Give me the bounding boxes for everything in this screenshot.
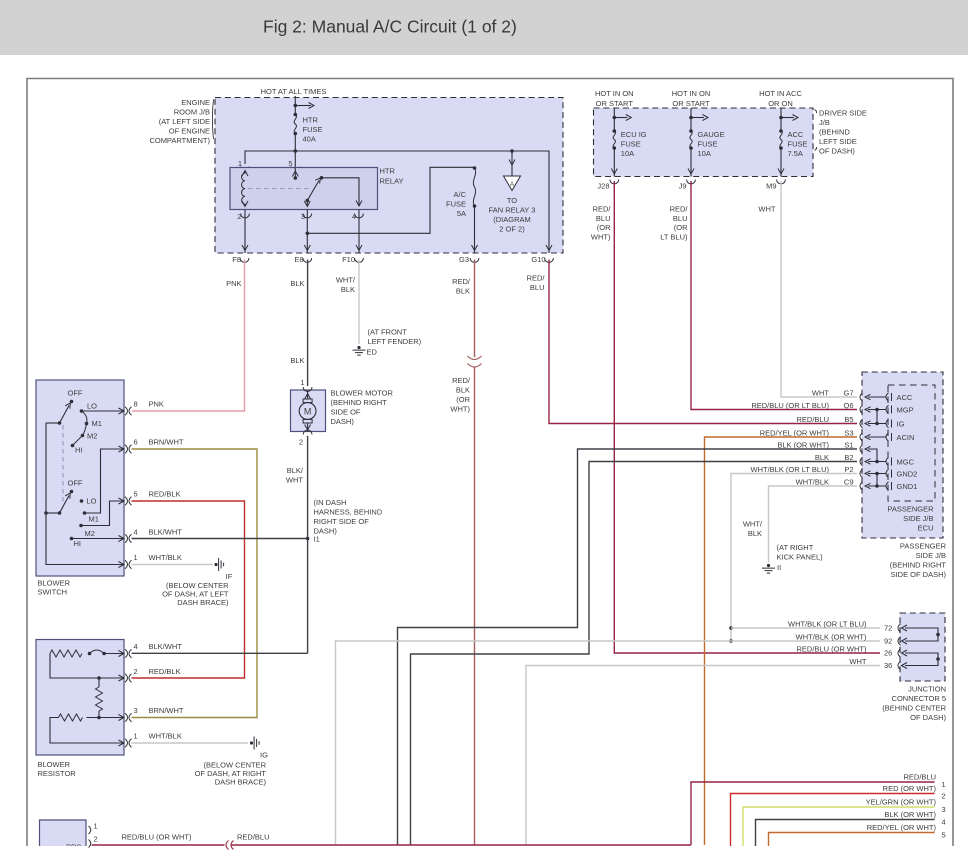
svg-text:G3: G3: [459, 255, 469, 264]
ECU internal pin ACC: [886, 393, 889, 401]
branch arrow: [294, 104, 298, 108]
ECU internal pin MGC: [886, 457, 889, 465]
wire BLK (OR WHT) pin 4: [756, 820, 935, 847]
svg-text:WHT/BLK: WHT/BLK: [149, 732, 182, 741]
svg-text:HOT IN ON: HOT IN ON: [595, 89, 634, 98]
ECU internal links: [868, 396, 886, 398]
svg-text:RED/: RED/: [452, 376, 471, 385]
driver side J/B label: [815, 110, 817, 151]
engine room J/B box: [215, 98, 563, 254]
resistor left link bottom: [50, 718, 124, 744]
svg-text:(BEHIND RIGHT: (BEHIND RIGHT: [331, 398, 388, 407]
wire BLK S1 path: [398, 449, 858, 845]
svg-text:BLK: BLK: [456, 287, 470, 296]
node G10: [545, 258, 554, 262]
node junction connector pin 92: [898, 637, 901, 645]
bus wire: [245, 151, 549, 164]
wire BRN/WHT switch pin6 to resistor pin3: [132, 449, 258, 718]
svg-text:40A: 40A: [303, 135, 316, 144]
svg-text:IG: IG: [897, 420, 905, 429]
svg-text:WHT: WHT: [812, 389, 829, 398]
node PRS pin1: [89, 826, 91, 834]
svg-text:RED (OR WHT): RED (OR WHT): [883, 784, 937, 793]
node junction connector pin 72: [898, 624, 901, 632]
blower resistor box: [36, 640, 124, 756]
svg-text:M: M: [304, 407, 312, 417]
svg-text:Q6: Q6: [843, 401, 853, 410]
svg-text:10A: 10A: [621, 149, 634, 158]
relay coil: [242, 171, 248, 177]
svg-text:WHT: WHT: [849, 657, 866, 666]
switch arm upper: [60, 406, 70, 424]
svg-text:RED/BLU: RED/BLU: [237, 833, 270, 842]
node J28: [610, 180, 619, 184]
svg-text:6: 6: [134, 438, 138, 447]
svg-text:RED/BLK: RED/BLK: [149, 667, 181, 676]
wire PNK F8 to blower switch pin8: [132, 260, 245, 412]
relay pin5 stub: [294, 168, 296, 179]
svg-text:RED/YEL (OR WHT): RED/YEL (OR WHT): [867, 823, 937, 832]
svg-text:8: 8: [134, 400, 138, 409]
wire BLK/WHT I1 to resistor pin4: [132, 652, 308, 654]
wire WHT/BLK branch to junction connector 72: [729, 626, 733, 630]
svg-text:FUSE: FUSE: [303, 125, 323, 134]
node J9: [687, 180, 696, 184]
svg-text:(IN DASH: (IN DASH: [314, 498, 347, 507]
svg-text:OF DASH): OF DASH): [819, 147, 855, 156]
svg-text:(OR: (OR: [597, 223, 611, 232]
svg-text:KICK PANEL): KICK PANEL): [777, 553, 824, 562]
svg-text:IF: IF: [226, 572, 233, 581]
svg-text:COMPARTMENT): COMPARTMENT): [149, 136, 210, 145]
svg-text:ECU IG: ECU IG: [621, 130, 647, 139]
ECU internal pin ACIN: [886, 433, 889, 441]
svg-text:1: 1: [300, 378, 304, 387]
node F8: [240, 258, 249, 262]
ground II: [767, 564, 770, 567]
node PRS pin2: [89, 840, 91, 848]
svg-text:Fig 2: Manual A/C Circuit (1 o: Fig 2: Manual A/C Circuit (1 of 2): [263, 17, 517, 37]
svg-text:(BEHIND CENTER: (BEHIND CENTER: [882, 704, 946, 713]
wire YEL/GRN (OR WHT) pin 3: [743, 807, 935, 846]
svg-text:DRIVER SIDE: DRIVER SIDE: [819, 109, 867, 118]
fuse GAUGE J9: [690, 108, 692, 131]
ECU internal pin GND1: [886, 482, 889, 490]
svg-text:(OR: (OR: [674, 223, 688, 232]
node ECU pin Q6: [860, 405, 863, 413]
svg-text:I1: I1: [314, 535, 320, 544]
driver side J/B box: [594, 108, 814, 177]
svg-text:5A: 5A: [457, 209, 466, 218]
resistor element 1: [50, 650, 82, 657]
node switch pin4: [119, 536, 125, 542]
svg-text:BLK: BLK: [748, 529, 762, 538]
svg-text:DASH BRACE): DASH BRACE): [177, 598, 229, 607]
svg-text:HOT IN ON: HOT IN ON: [672, 89, 711, 98]
svg-text:SIDE J/B: SIDE J/B: [903, 514, 933, 523]
svg-text:BLK/: BLK/: [287, 466, 304, 475]
svg-text:DASH): DASH): [331, 417, 355, 426]
wire RED/YEL S3 down: [705, 437, 858, 845]
svg-text:M9: M9: [766, 182, 776, 191]
svg-text:(DIAGRAM: (DIAGRAM: [493, 215, 531, 224]
svg-text:M1: M1: [89, 515, 99, 524]
svg-text:10A: 10A: [698, 149, 711, 158]
node ECU pin P2: [860, 469, 863, 477]
svg-text:SIDE OF: SIDE OF: [331, 408, 361, 417]
wire break connector: [226, 841, 234, 850]
svg-text:GND1: GND1: [897, 482, 918, 491]
svg-text:BLK: BLK: [341, 285, 355, 294]
wire WHT/BLK resistor pin1 to ground IG: [132, 742, 249, 744]
svg-text:WHT): WHT): [450, 405, 470, 414]
svg-text:BLK: BLK: [290, 279, 304, 288]
svg-text:M2: M2: [87, 432, 97, 441]
svg-text:(OR: (OR: [456, 395, 470, 404]
svg-text:RED/: RED/: [593, 205, 612, 214]
node switch pin6: [119, 446, 125, 452]
svg-text:RED/BLU: RED/BLU: [796, 415, 829, 424]
svg-text:1: 1: [942, 780, 946, 789]
fuse ACC M9: [780, 108, 782, 131]
svg-text:WHT/BLK (OR LT BLU): WHT/BLK (OR LT BLU): [788, 620, 867, 629]
svg-text:FUSE: FUSE: [698, 140, 718, 149]
svg-text:WHT: WHT: [286, 476, 303, 485]
svg-text:P2: P2: [844, 465, 853, 474]
junction connector internal link 1: [905, 628, 938, 641]
fuse A/C FUSE 5A: [473, 166, 477, 170]
svg-text:1: 1: [238, 159, 242, 168]
wire RED/BLU continues: [232, 844, 692, 846]
svg-text:TO: TO: [507, 196, 517, 205]
node ECU pin C9: [860, 482, 863, 490]
motor symbol: [307, 390, 309, 399]
svg-text:CONNECTOR 5: CONNECTOR 5: [892, 694, 946, 703]
svg-text:S1: S1: [844, 441, 853, 450]
svg-text:FUSE: FUSE: [621, 140, 641, 149]
svg-text:C9: C9: [844, 478, 854, 487]
node junction connector pin 36: [898, 661, 901, 669]
svg-text:RESISTOR: RESISTOR: [38, 769, 77, 778]
svg-text:2: 2: [942, 792, 946, 801]
wire A/C fuse to G3: [474, 206, 476, 253]
ECU inner connector box: [888, 385, 935, 501]
svg-text:BRN/WHT: BRN/WHT: [149, 706, 184, 715]
svg-text:E8: E8: [294, 255, 303, 264]
svg-text:7.5A: 7.5A: [788, 149, 803, 158]
svg-text:PASSENGER: PASSENGER: [887, 505, 934, 514]
svg-text:G7: G7: [843, 389, 853, 398]
svg-text:BLK: BLK: [290, 356, 304, 365]
svg-text:WHT/: WHT/: [336, 276, 356, 285]
svg-text:BLK (OR WHT): BLK (OR WHT): [777, 441, 829, 450]
svg-text:A: A: [510, 182, 514, 188]
svg-text:PASSENGER: PASSENGER: [900, 542, 947, 551]
svg-text:WHT/BLK: WHT/BLK: [796, 478, 829, 487]
wire WHT/BLK branch 92 row: [729, 639, 733, 643]
svg-text:OFF: OFF: [68, 389, 83, 398]
wire WHT/BLK F10 to ground ED: [358, 260, 360, 345]
node junction connector pin 26: [898, 649, 901, 657]
svg-text:OF DASH): OF DASH): [910, 713, 946, 722]
wire RED/YEL (OR WHT) pin 5: [769, 833, 935, 847]
svg-text:J/B: J/B: [819, 118, 830, 127]
fuse HTR FUSE 40A: [294, 113, 298, 117]
svg-text:J9: J9: [679, 182, 687, 191]
wire pin5 path: [81, 501, 124, 526]
node resistor pin1: [119, 740, 125, 746]
svg-text:LO: LO: [87, 497, 97, 506]
svg-text:4: 4: [134, 642, 138, 651]
relay actuate dashed line: [248, 188, 309, 190]
svg-text:36: 36: [884, 661, 892, 670]
svg-text:A/C: A/C: [453, 190, 466, 199]
wire pin4 path: [72, 538, 125, 540]
resistor element 2: [59, 714, 83, 721]
svg-text:RED/BLU (OR WHT): RED/BLU (OR WHT): [797, 645, 868, 654]
svg-text:(AT LEFT SIDE: (AT LEFT SIDE: [159, 117, 210, 126]
switch link dashed: [62, 425, 64, 502]
wire RED/BLU G10 to ECU B5: [549, 260, 857, 424]
svg-text:HTR: HTR: [380, 167, 396, 176]
title bar: [0, 0, 968, 55]
svg-text:92: 92: [884, 637, 892, 646]
relay HTR RELAY box: [230, 168, 378, 210]
svg-text:BLK/WHT: BLK/WHT: [149, 642, 183, 651]
wire fuse to bus: [294, 134, 296, 168]
svg-text:4: 4: [134, 528, 138, 537]
svg-text:HOT IN ACC: HOT IN ACC: [759, 89, 802, 98]
wire hot feed: [294, 96, 296, 114]
svg-text:RIGHT SIDE OF: RIGHT SIDE OF: [314, 517, 370, 526]
node F10: [355, 258, 364, 262]
svg-text:LEFT FENDER): LEFT FENDER): [368, 337, 422, 346]
blower motor box: [291, 390, 326, 432]
wire BLK/WHT switch pin4 to splice I1: [132, 538, 308, 540]
svg-text:ECU: ECU: [918, 524, 934, 533]
ground IF: [214, 563, 217, 566]
wire RED/BLU J28 to junction connector 26: [614, 181, 880, 653]
svg-text:BLK/WHT: BLK/WHT: [149, 528, 183, 537]
svg-text:S3: S3: [844, 429, 853, 438]
svg-text:ED: ED: [367, 348, 378, 357]
wire RED (OR WHT) pin 2: [731, 794, 935, 847]
svg-text:2: 2: [134, 667, 138, 676]
svg-text:ENGINE: ENGINE: [181, 98, 210, 107]
ECU internal pin GND2: [886, 469, 889, 477]
svg-text:GAUGE: GAUGE: [698, 130, 725, 139]
wire G10 drop inside box: [548, 164, 550, 253]
wire RED/BLU pin 1: [691, 782, 935, 845]
svg-text:WHT/BLK (OR WHT): WHT/BLK (OR WHT): [796, 633, 867, 642]
fuse ECU IG J28: [613, 108, 615, 131]
svg-text:SIDE OF DASH): SIDE OF DASH): [891, 570, 947, 579]
svg-text:ACIN: ACIN: [897, 433, 915, 442]
svg-text:5: 5: [134, 490, 138, 499]
svg-text:BLK: BLK: [456, 386, 470, 395]
svg-text:RED/YEL (OR WHT): RED/YEL (OR WHT): [760, 429, 830, 438]
wire contact LO to pin8: [82, 410, 125, 412]
svg-text:BLK: BLK: [815, 453, 829, 462]
wire BLK E8 to blower motor: [307, 260, 309, 387]
node G3: [470, 258, 479, 262]
svg-text:ROOM J/B: ROOM J/B: [174, 108, 210, 117]
svg-text:GND2: GND2: [897, 470, 918, 479]
node resistor pin3: [119, 715, 125, 721]
node ECU pin S1: [860, 445, 863, 453]
svg-text:RELAY: RELAY: [380, 177, 404, 186]
svg-text:3: 3: [942, 805, 946, 814]
svg-text:HARNESS, BEHIND: HARNESS, BEHIND: [314, 508, 383, 517]
node ECU pin B2: [860, 457, 863, 465]
svg-text:(AT FRONT: (AT FRONT: [368, 328, 408, 337]
svg-text:BLOWER MOTOR: BLOWER MOTOR: [331, 389, 394, 398]
svg-text:WHT): WHT): [591, 232, 611, 241]
wire WHT/BLK P2 path: [731, 474, 857, 642]
junction connector 5 box: [900, 613, 945, 681]
wire BLK/WHT motor to I1: [307, 436, 309, 653]
node ECU pin G7: [860, 393, 863, 401]
svg-text:B5: B5: [844, 415, 853, 424]
svg-text:LEFT SIDE: LEFT SIDE: [819, 137, 857, 146]
svg-text:SWITCH: SWITCH: [38, 588, 68, 597]
svg-text:OR START: OR START: [596, 99, 634, 108]
relay pin3 internal: [306, 201, 308, 207]
wire RED/BLU J9 to ECU Q6: [691, 181, 857, 410]
wire BLK B2 path: [411, 462, 858, 846]
svg-text:OFF: OFF: [68, 479, 83, 488]
splice I1: [306, 537, 310, 541]
svg-text:WHT/BLK (OR LT BLU): WHT/BLK (OR LT BLU): [751, 465, 830, 474]
svg-text:F8: F8: [232, 255, 241, 264]
svg-text:M2: M2: [85, 529, 95, 538]
svg-text:FAN RELAY 3: FAN RELAY 3: [489, 206, 536, 215]
svg-text:(BEHIND: (BEHIND: [819, 128, 850, 137]
svg-text:RED/BLU (OR LT BLU): RED/BLU (OR LT BLU): [751, 401, 829, 410]
node E8: [303, 258, 312, 262]
node motor pin2: [303, 430, 312, 434]
node resistor pin4: [119, 651, 125, 657]
switch common line: [46, 423, 124, 565]
svg-text:BLOWER: BLOWER: [38, 760, 71, 769]
node switch pin5: [119, 498, 125, 504]
svg-text:MGP: MGP: [897, 406, 914, 415]
svg-text:72: 72: [884, 624, 892, 633]
svg-text:ACC: ACC: [897, 393, 913, 402]
ground IG: [250, 741, 253, 744]
node ECU pin B5: [860, 419, 863, 427]
svg-text:BLK (OR WHT): BLK (OR WHT): [884, 810, 936, 819]
svg-text:WHT/BLK: WHT/BLK: [149, 553, 182, 562]
relay switch arm: [306, 199, 310, 203]
svg-text:1: 1: [134, 553, 138, 562]
svg-text:OR START: OR START: [672, 99, 710, 108]
wire break symbol: [468, 356, 482, 360]
svg-text:HI: HI: [74, 539, 82, 548]
svg-text:HOT AT ALL TIMES: HOT AT ALL TIMES: [261, 87, 327, 96]
svg-text:BLU: BLU: [673, 214, 688, 223]
svg-text:RED/: RED/: [670, 205, 689, 214]
svg-text:BLU: BLU: [596, 214, 611, 223]
svg-text:1: 1: [134, 732, 138, 741]
wire WHT junction 36 down: [526, 666, 880, 846]
PRS pressure switch box: [40, 820, 87, 846]
svg-text:JUNCTION: JUNCTION: [908, 685, 946, 694]
wire RED/BLK switch pin5 to resistor pin2: [132, 501, 245, 678]
svg-text:IG: IG: [260, 751, 268, 760]
wire RED/BLK G3 down: [474, 260, 476, 358]
relay switch contact wire: [322, 178, 360, 206]
svg-text:(BEHIND RIGHT: (BEHIND RIGHT: [890, 561, 947, 570]
svg-text:RED/: RED/: [452, 277, 471, 286]
svg-text:RED/BLK: RED/BLK: [149, 490, 181, 499]
svg-text:HTR: HTR: [303, 116, 319, 125]
resistor element vertical: [97, 676, 101, 680]
passenger side J/B ECU box: [862, 372, 943, 538]
svg-text:J28: J28: [597, 182, 609, 191]
svg-text:RED/BLU (OR WHT): RED/BLU (OR WHT): [122, 833, 193, 842]
svg-text:5: 5: [942, 831, 946, 840]
svg-text:WHT/: WHT/: [743, 520, 763, 529]
wire pin6 path: [85, 449, 125, 513]
svg-text:OR ON: OR ON: [768, 99, 793, 108]
svg-text:FUSE: FUSE: [788, 140, 808, 149]
wire WHT M9 to ECU G7: [781, 181, 857, 397]
svg-text:LO: LO: [87, 402, 97, 411]
svg-text:ACC: ACC: [788, 130, 804, 139]
node ECU pin S3: [860, 433, 863, 441]
blower switch box: [36, 380, 124, 576]
svg-text:YEL/GRN (OR WHT): YEL/GRN (OR WHT): [866, 798, 937, 807]
svg-text:G10: G10: [531, 255, 545, 264]
node resistor pin2: [119, 675, 125, 681]
fan relay branch: [510, 149, 514, 153]
svg-text:BLU: BLU: [530, 283, 545, 292]
svg-text:PNK: PNK: [226, 279, 241, 288]
svg-text:FUSE: FUSE: [446, 200, 466, 209]
switch arm lower: [60, 496, 70, 514]
ECU internal pin IG: [886, 419, 889, 427]
symbol to fan relay triangle: [504, 176, 521, 191]
svg-text:BLOWER: BLOWER: [38, 579, 71, 588]
wire RED/BLU (OR WHT) PRS to corner: [92, 844, 225, 846]
junction connector internal link 2: [905, 653, 938, 666]
node switch pin8: [119, 408, 125, 414]
svg-text:DASH BRACE): DASH BRACE): [215, 778, 267, 787]
svg-text:1: 1: [94, 822, 98, 831]
switch contacts upper: [80, 409, 84, 413]
node switch pin1: [119, 562, 125, 568]
svg-text:SIDE J/B: SIDE J/B: [916, 551, 946, 560]
node M9: [777, 180, 786, 184]
svg-text:2: 2: [94, 835, 98, 844]
svg-text:HI: HI: [75, 446, 83, 455]
wire WHT/BLK pin1 to ground IF: [132, 564, 214, 566]
svg-text:BRN/WHT: BRN/WHT: [149, 438, 184, 447]
svg-text:MGC: MGC: [897, 458, 915, 467]
svg-text:F10: F10: [342, 255, 355, 264]
svg-text:OF ENGINE: OF ENGINE: [169, 127, 210, 136]
svg-text:4: 4: [942, 818, 946, 827]
wire WHT/BLK C9 to ground II: [769, 486, 858, 562]
svg-text:2: 2: [237, 212, 241, 221]
ground ED: [357, 346, 360, 349]
svg-text:II: II: [777, 563, 781, 572]
svg-text:(AT RIGHT: (AT RIGHT: [777, 543, 814, 552]
svg-text:RED/: RED/: [527, 274, 546, 283]
ECU internal pin MGP: [886, 405, 889, 413]
svg-text:3: 3: [134, 706, 138, 715]
